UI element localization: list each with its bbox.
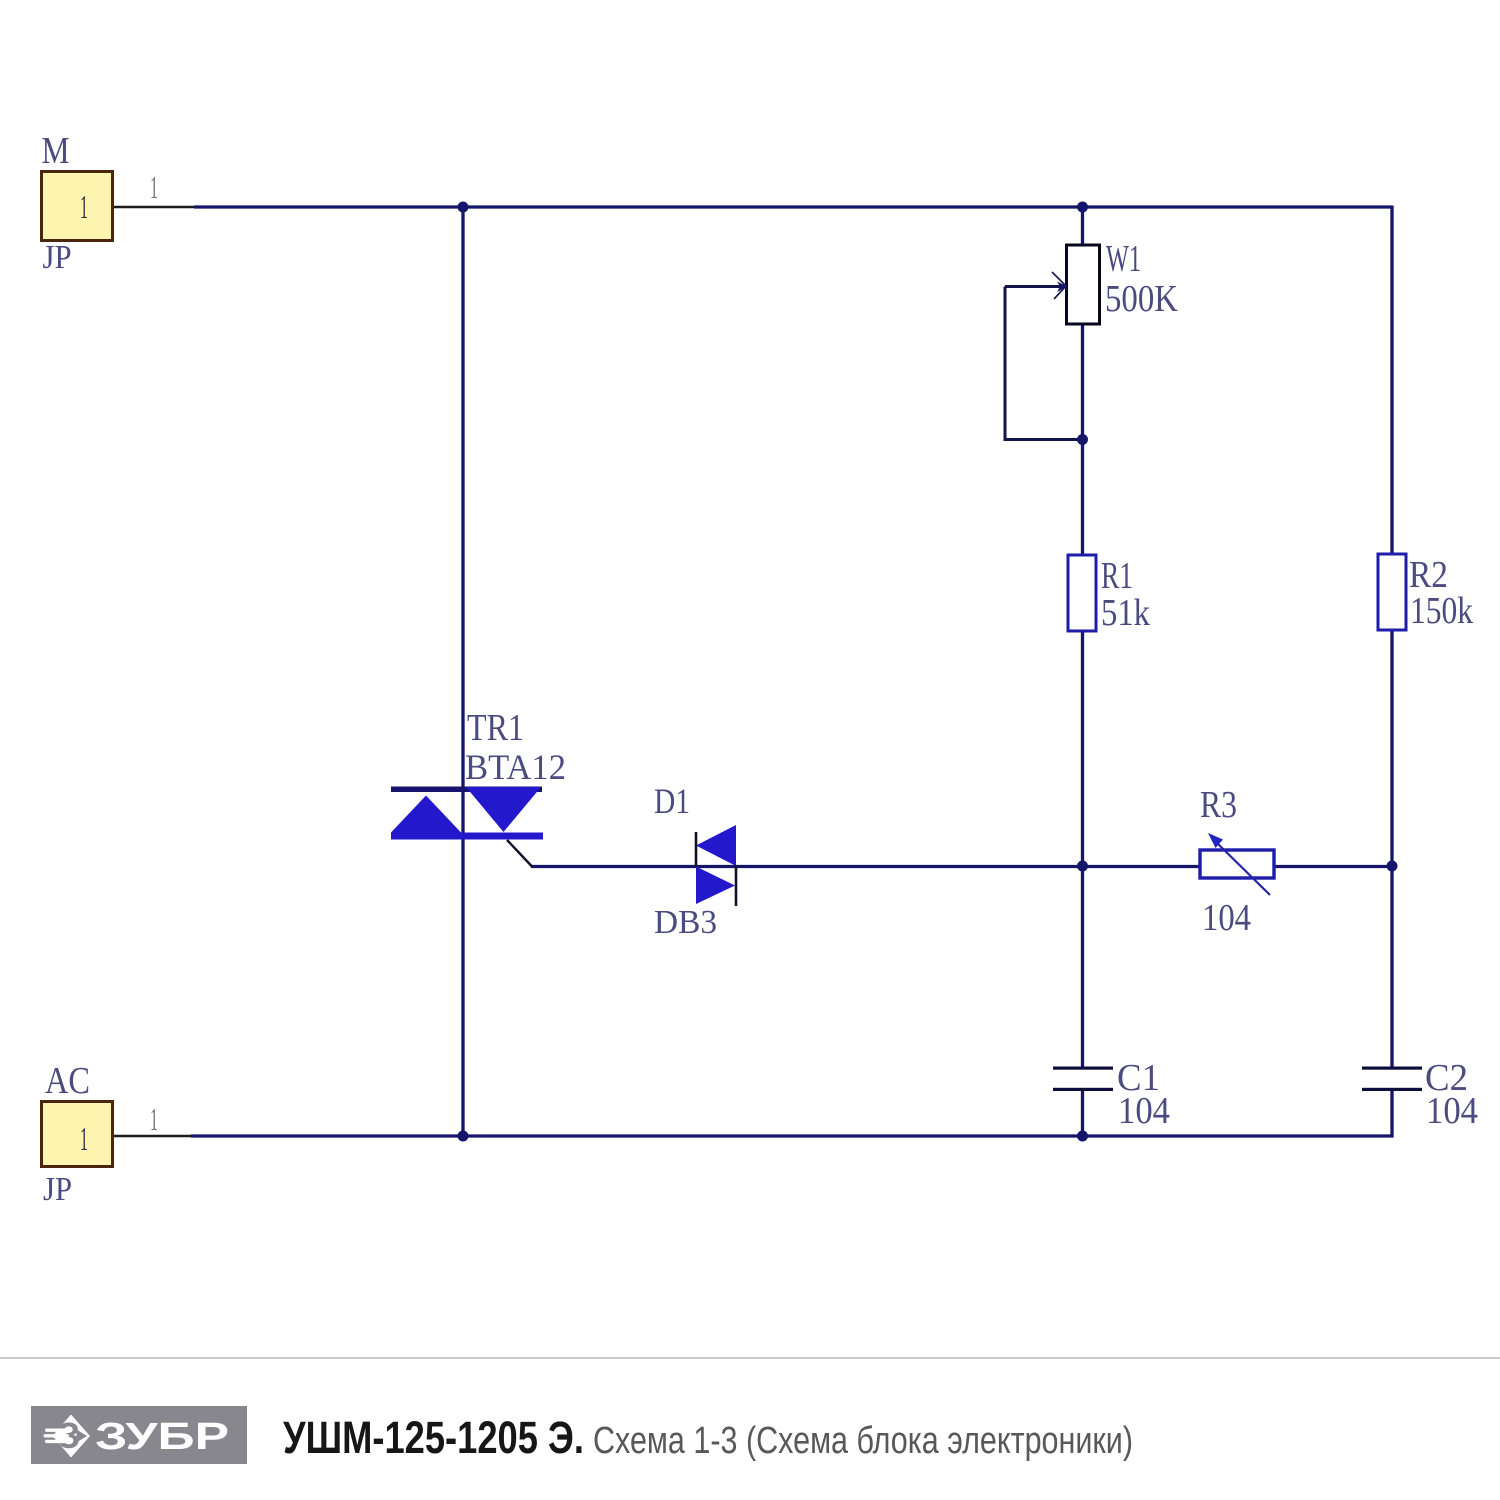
footer ZUBR logo text — [95, 1416, 229, 1458]
wire right rail middle segment R2 to R3 node — [1390, 629, 1393, 1068]
svg-text:Схема 1-3 (Схема блока электро: Схема 1-3 (Схема блока электроники) — [593, 1420, 1133, 1462]
svg-text:R1: R1 — [1101, 555, 1133, 597]
svg-text:BTA12: BTA12 — [465, 747, 566, 787]
svg-text:W1: W1 — [1106, 238, 1141, 280]
svg-text:ЗУБР: ЗУБР — [95, 1416, 229, 1458]
pin number 1 label at AC wire — [150, 1101, 158, 1137]
svg-text:1: 1 — [80, 189, 88, 226]
label JP of AC — [43, 1171, 72, 1208]
svg-text:1: 1 — [150, 1101, 158, 1137]
varistor R3 body — [1200, 850, 1274, 878]
wire net N$1 top rail M to right — [194, 205, 1392, 208]
pin number 1 label at M wire — [150, 169, 158, 205]
label JP of M — [43, 239, 72, 276]
label R2 — [1409, 554, 1448, 596]
label TR1 — [467, 707, 524, 749]
svg-text:DB3: DB3 — [654, 904, 717, 941]
junction dot bottom rail left — [458, 1131, 469, 1142]
footer title scheme description — [593, 1420, 1133, 1462]
footer ZUBR logo plate — [31, 1406, 247, 1464]
label R3 — [1200, 784, 1237, 826]
wire middle column W1 branch — [1081, 207, 1084, 1068]
triac TR1 right triangle — [466, 787, 541, 832]
value 104 of C2 — [1426, 1090, 1478, 1132]
diac D1 right bar — [735, 865, 738, 906]
svg-text:1: 1 — [150, 169, 158, 205]
capacitor C1 plates — [1053, 1067, 1113, 1092]
svg-text:104: 104 — [1118, 1090, 1170, 1132]
pin 1 stub of connector AC — [113, 1135, 191, 1138]
value 51k of R1 — [1101, 592, 1150, 634]
svg-text:JP: JP — [43, 1171, 72, 1208]
value 104 of C1 — [1118, 1090, 1170, 1132]
varistor R3 diagonal arrow — [1208, 833, 1270, 895]
label BTA12 — [465, 747, 566, 787]
svg-text:150k: 150k — [1410, 590, 1473, 632]
connector AC pin number 1 — [80, 1121, 88, 1158]
value 500K of W1 — [1105, 278, 1178, 320]
wire left rail triac branch — [461, 207, 464, 1136]
junction dot gate net right rail — [1387, 861, 1398, 872]
svg-text:D1: D1 — [654, 781, 690, 821]
connector M box — [42, 172, 113, 241]
label W1 — [1106, 238, 1141, 280]
wire right rail bottom segment C2 to bottom rail — [1390, 1090, 1393, 1138]
diac D1 left bar — [695, 832, 698, 867]
pin 1 stub of connector M — [113, 206, 194, 209]
label AC — [45, 1060, 90, 1102]
diac D1 upper triangle — [696, 825, 736, 866]
footer title model — [283, 1412, 584, 1463]
svg-text:1: 1 — [80, 1121, 88, 1158]
resistor R1 body — [1068, 555, 1096, 631]
svg-text:104: 104 — [1202, 897, 1251, 939]
label M — [42, 130, 70, 172]
label R1 — [1101, 555, 1133, 597]
wire C1 to bottom rail — [1081, 1090, 1084, 1136]
label D1 — [654, 781, 690, 821]
svg-text:JP: JP — [43, 239, 72, 276]
label C1 — [1117, 1057, 1160, 1099]
junction dot W1 wiper loop — [1077, 434, 1088, 445]
diac D1 lower triangle — [696, 867, 735, 905]
junction dot gate net middle column — [1077, 861, 1088, 872]
svg-text:УШМ-125-1205 Э.: УШМ-125-1205 Э. — [283, 1412, 584, 1463]
svg-text:AC: AC — [45, 1060, 90, 1102]
value 150k of R2 — [1410, 590, 1473, 632]
footer divider line — [0, 1357, 1500, 1359]
value 104 of R3 — [1202, 897, 1251, 939]
wire W1 wiper loop — [1005, 287, 1082, 440]
connector M pin number 1 — [80, 189, 88, 226]
resistor R2 body — [1378, 554, 1406, 630]
svg-text:104: 104 — [1426, 1090, 1478, 1132]
potentiometer W1 body — [1067, 245, 1100, 324]
triac TR1 left triangle — [391, 796, 461, 833]
junction dot top middle column — [1077, 202, 1088, 213]
wire right rail top segment — [1390, 206, 1393, 557]
triac TR1 top bar MT2 — [391, 787, 542, 793]
svg-text:51k: 51k — [1101, 592, 1150, 634]
wire gate net triac to R3 to right rail — [531, 865, 1392, 868]
svg-text:500K: 500K — [1105, 278, 1178, 320]
footer ZUBR logo diamond — [44, 1415, 91, 1458]
svg-text:TR1: TR1 — [467, 707, 524, 749]
wire bottom rail AC line — [191, 1134, 1394, 1137]
label DB3 — [654, 904, 717, 941]
connector AC box — [42, 1102, 113, 1167]
capacitor C2 plates — [1362, 1067, 1422, 1092]
junction dot bottom rail C1 — [1077, 1131, 1088, 1142]
junction dot top left rail — [458, 202, 469, 213]
label C2 — [1425, 1057, 1468, 1099]
svg-text:R3: R3 — [1200, 784, 1237, 826]
potentiometer W1 wiper arrow — [1005, 272, 1068, 299]
svg-text:M: M — [42, 130, 70, 172]
triac TR1 gate lead — [507, 840, 532, 867]
triac TR1 bottom bar MT1 — [391, 833, 543, 840]
